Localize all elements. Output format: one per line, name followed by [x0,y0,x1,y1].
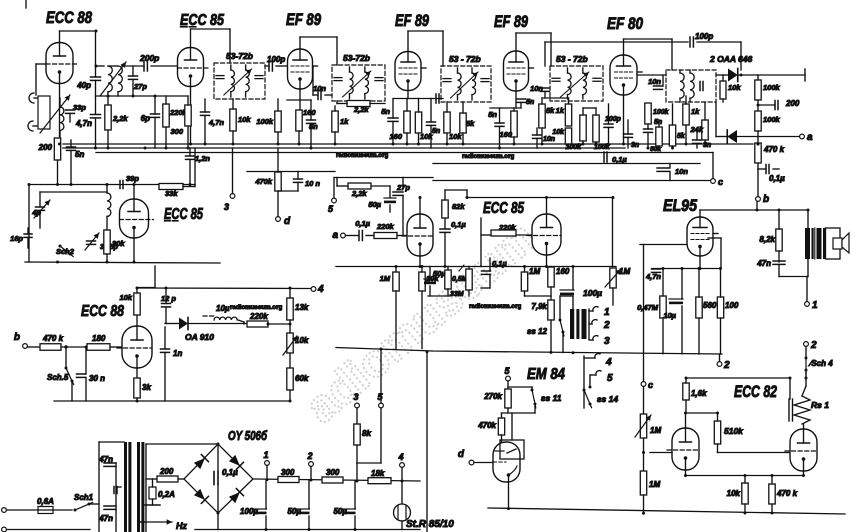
svg-text:160: 160 [556,267,570,276]
svg-text:27p: 27p [133,82,147,91]
svg-text:560: 560 [703,301,717,310]
svg-text:10k: 10k [728,83,741,92]
svg-text:EF 80: EF 80 [607,15,644,33]
svg-text:10n: 10n [530,84,543,93]
svg-text:100k: 100k [256,117,274,126]
svg-text:8k: 8k [362,429,371,438]
svg-text:200: 200 [785,99,800,108]
svg-text:470 k: 470 k [776,489,798,498]
svg-text:10k: 10k [238,115,251,124]
svg-text:Rs 1: Rs 1 [811,400,829,410]
svg-text:3k: 3k [142,383,151,392]
svg-text:ECC 85: ECC 85 [483,200,525,217]
svg-text:160: 160 [389,132,402,141]
svg-text:5n: 5n [526,99,534,106]
svg-text:0,6A: 0,6A [37,497,54,506]
svg-text:33M: 33M [450,291,464,298]
svg-text:10n: 10n [543,136,555,143]
svg-text:53 - 72b: 53 - 72b [449,54,481,64]
svg-text:Hz: Hz [176,521,187,531]
svg-text:EL95: EL95 [663,197,698,215]
svg-text:100µ: 100µ [240,507,258,516]
svg-text:270k: 270k [483,392,502,401]
svg-text:33p: 33p [73,103,86,112]
svg-text:1M: 1M [619,267,630,276]
svg-text:180: 180 [92,334,106,343]
svg-text:b: b [14,332,20,343]
svg-text:EF 89: EF 89 [494,13,529,31]
svg-text:1: 1 [604,307,610,318]
svg-text:0,1µ: 0,1µ [355,219,370,228]
svg-text:10µ: 10µ [216,304,230,313]
svg-text:200: 200 [159,467,174,476]
svg-text:8,2k: 8,2k [759,235,775,244]
svg-text:гs 14: гs 14 [597,394,618,404]
svg-text:гs 12: гs 12 [527,327,547,336]
svg-text:10k: 10k [552,129,565,136]
svg-text:0,1µ: 0,1µ [451,220,466,229]
svg-text:1,2n: 1,2n [195,154,210,163]
svg-text:100: 100 [725,301,739,310]
svg-text:1M: 1M [529,267,540,276]
svg-text:100k: 100k [763,115,781,124]
svg-text:1k: 1k [556,106,565,115]
svg-text:47n: 47n [756,259,771,268]
svg-text:39p: 39p [126,174,139,183]
svg-text:1k: 1k [691,107,700,116]
svg-text:5n: 5n [432,128,440,135]
svg-text:Sch2: Sch2 [56,247,75,256]
svg-text:3: 3 [353,392,358,402]
svg-text:2,2k: 2,2k [353,105,369,114]
svg-text:220k: 220k [249,312,268,321]
svg-text:0,1µ: 0,1µ [492,259,507,268]
svg-text:6p: 6p [141,114,150,123]
svg-text:47n: 47n [98,514,113,523]
svg-text:220k: 220k [376,222,395,231]
svg-text:200p: 200p [139,53,159,63]
svg-text:radiomuseum.org: radiomuseum.org [469,303,521,310]
svg-text:10n: 10n [648,77,661,86]
svg-text:30 n: 30 n [89,374,105,383]
svg-text:1k: 1k [340,117,349,126]
svg-text:470 k: 470 k [42,334,64,343]
svg-text:60k: 60k [295,374,309,383]
svg-text:40p: 40p [76,81,91,90]
svg-text:5k: 5k [466,119,475,128]
svg-text:5: 5 [607,373,613,384]
svg-text:30k: 30k [112,239,125,248]
svg-text:50µ: 50µ [287,507,301,516]
svg-text:100µ: 100µ [583,288,602,298]
svg-text:100p: 100p [267,55,285,64]
svg-text:200: 200 [38,143,53,152]
svg-text:2: 2 [306,451,312,461]
svg-text:⁄Sch 4: ⁄Sch 4 [808,359,833,368]
svg-text:5n: 5n [75,150,84,159]
svg-text:1,6k: 1,6k [691,389,707,398]
svg-text:0,2A: 0,2A [158,490,175,499]
svg-text:a: a [807,132,813,143]
svg-text:EM 84: EM 84 [527,366,565,383]
svg-text:5k: 5k [677,133,686,140]
svg-text:5n: 5n [654,119,662,126]
svg-text:EF 89: EF 89 [395,12,430,30]
svg-text:2: 2 [603,320,610,331]
svg-text:100p: 100p [605,116,622,123]
svg-text:82k: 82k [452,202,465,211]
svg-text:10 n: 10 n [305,179,320,188]
svg-text:OY 506б: OY 506б [228,429,268,443]
svg-text:OA 910: OA 910 [185,332,214,342]
svg-text:2: 2 [810,340,817,351]
svg-text:radiomuseum.org: radiomuseum.org [462,153,514,160]
svg-text:ECC 88: ECC 88 [81,303,124,320]
svg-text:3: 3 [224,202,229,212]
svg-text:100k: 100k [653,109,670,116]
svg-text:гs 11: гs 11 [541,393,562,403]
svg-text:300: 300 [170,127,183,136]
svg-text:0,1µ: 0,1µ [769,174,785,183]
svg-text:510k: 510k [724,426,744,436]
svg-text:1: 1 [812,300,818,311]
svg-text:St.R 85/10: St.R 85/10 [406,519,454,530]
svg-text:7,9k: 7,9k [531,302,547,311]
svg-text:4: 4 [605,357,612,368]
svg-text:18k: 18k [371,469,385,478]
svg-text:4,7n: 4,7n [208,118,224,127]
svg-text:2: 2 [723,360,730,371]
svg-text:300: 300 [281,468,295,477]
svg-text:Sch1: Sch1 [74,493,94,502]
svg-text:160: 160 [303,108,316,117]
svg-text:4: 4 [397,452,403,462]
svg-text:160: 160 [499,130,512,139]
svg-text:4: 4 [317,284,324,295]
svg-text:2,2k: 2,2k [351,189,367,198]
svg-text:0,1µ: 0,1µ [612,155,627,164]
svg-text:Sch.5: Sch.5 [47,373,69,382]
svg-text:470k: 470k [477,421,496,430]
svg-text:16p: 16p [10,234,23,243]
svg-text:53-72b: 53-72b [343,53,370,63]
svg-text:2,2k: 2,2k [112,114,128,123]
svg-text:33k: 33k [165,189,178,198]
svg-text:2 OAA 646: 2 OAA 646 [709,54,752,64]
svg-text:10n: 10n [313,84,326,93]
svg-text:53 - 72b: 53 - 72b [556,54,588,64]
svg-text:100p: 100p [695,32,713,41]
svg-text:b: b [763,194,769,205]
svg-text:470 k: 470 k [763,145,785,154]
svg-text:220k: 220k [498,223,517,232]
svg-text:47n: 47n [98,455,113,464]
svg-text:c: c [718,177,723,187]
svg-text:1M: 1M [649,480,660,489]
svg-text:E̲C̲C 85: E̲C̲C 85 [180,12,225,29]
svg-text:13k: 13k [295,303,309,312]
svg-text:ECC 82: ECC 82 [734,383,777,401]
svg-text:4,7n: 4,7n [645,272,661,281]
svg-text:a: a [332,230,338,241]
svg-text:53-72b: 53-72b [226,51,253,61]
svg-text:10k: 10k [727,489,741,498]
svg-text:10k: 10k [295,336,309,345]
svg-text:ECC 88: ECC 88 [46,8,92,27]
svg-text:E̲C̲C 85: E̲C̲C 85 [164,206,204,223]
svg-text:1n: 1n [173,349,182,358]
svg-text:1M: 1M [380,274,391,283]
svg-text:0,47M: 0,47M [637,303,659,312]
svg-text:50µ: 50µ [368,200,381,209]
svg-text:470k: 470k [254,177,273,186]
svg-text:10k: 10k [119,293,132,302]
svg-text:1: 1 [263,450,268,460]
svg-text:d: d [284,216,291,227]
svg-text:3: 3 [604,336,610,347]
svg-text:0,1µ: 0,1µ [222,468,238,477]
svg-text:5k: 5k [546,106,555,115]
svg-text:c: c [648,380,653,390]
svg-text:3n: 3n [631,142,639,149]
svg-text:300: 300 [326,468,340,477]
svg-text:10µ: 10µ [663,311,676,320]
svg-text:d: d [458,449,465,460]
svg-text:5n: 5n [488,110,497,119]
svg-text:12 p: 12 p [161,294,176,303]
svg-text:4,7n: 4,7n [75,119,92,128]
svg-text:5n: 5n [381,107,390,116]
svg-text:radiomuseum.org: radiomuseum.org [230,304,282,311]
svg-text:50µ: 50µ [333,507,347,516]
svg-text:10n: 10n [675,167,688,176]
svg-text:100k: 100k [763,83,781,92]
svg-text:1M: 1M [650,426,661,435]
svg-text:EF 89: EF 89 [286,11,322,29]
